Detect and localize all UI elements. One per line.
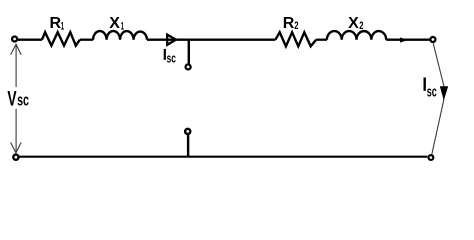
resistor R1 [42,32,80,45]
wire X1 to R2 (passes through arrow and junction) [147,39,275,41]
wire X2 to right terminal [386,39,430,41]
terminal bottom-right [429,155,434,160]
bottom stub wire [187,135,189,157]
svg-text:R: R [283,15,295,32]
bottom stub terminal [185,129,190,134]
svg-text:2: 2 [294,20,298,32]
wire top-left segment [18,39,42,41]
inductor X1 [93,31,147,40]
svg-text:1: 1 [121,20,124,32]
Vsc arrow line upper segment [15,44,17,87]
bottom wire [19,156,427,158]
inductor X2 [327,31,386,40]
svg-text:1: 1 [61,20,64,32]
current arrowhead Isc (right, filled) [440,86,448,100]
wire R2 to X2 [316,39,327,41]
Vsc arrowhead down [11,142,22,153]
Vsc arrowhead up [11,44,22,55]
svg-text:R: R [50,15,62,32]
terminal top-left [12,37,17,42]
wire R1 to X1 [80,39,93,41]
svg-text:V: V [7,87,16,110]
current arrow Isc (open triangle on wire) [167,35,176,45]
junction stub [188,40,190,64]
svg-text:X: X [348,15,359,32]
svg-text:sc: sc [427,85,437,101]
terminal bottom-left [13,155,18,160]
Vsc arrow line lower segment [15,109,17,153]
svg-text:sc: sc [167,51,176,66]
svg-text:X: X [109,15,120,32]
label Isc (right): I bar [424,78,426,91]
label Isc (left): I bar [164,49,166,60]
right side curved conductor [432,43,444,154]
terminal top-right [430,37,435,42]
small filled arrowhead on wire [400,37,408,42]
svg-text:sc: sc [17,91,29,109]
open terminal below junction [186,64,191,69]
resistor R2 [275,32,316,46]
svg-text:2: 2 [359,20,363,32]
